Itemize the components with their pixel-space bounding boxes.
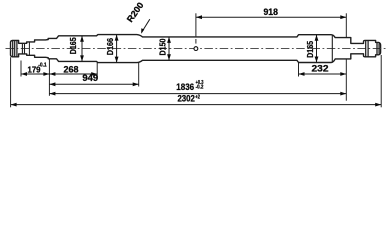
extension lines below shaft <box>20 61 22 77</box>
left end block inner verticals <box>12 40 14 56</box>
918 dimension <box>345 13 347 38</box>
D165 left <box>81 36 83 62</box>
svg-text:D150: D150 <box>159 38 168 55</box>
shaft outline <box>11 35 381 63</box>
svg-text:D166: D166 <box>106 38 115 55</box>
svg-text:R200: R200 <box>125 0 146 24</box>
svg-text:232: 232 <box>312 63 329 73</box>
svg-text:D165: D165 <box>69 37 78 54</box>
svg-text:1836: 1836 <box>176 82 194 92</box>
svg-text:-0.2: -0.2 <box>196 85 204 91</box>
D166 <box>116 35 118 63</box>
268 dimension <box>49 73 97 75</box>
svg-text:+2: +2 <box>195 94 200 100</box>
D150 <box>168 37 170 60</box>
179 dimension <box>21 73 49 75</box>
R200 <box>142 19 150 32</box>
svg-text:D165: D165 <box>306 40 315 57</box>
949 dimension <box>49 83 138 85</box>
right collar inner verticals <box>365 40 367 56</box>
svg-text:918: 918 <box>263 7 278 17</box>
D165 right <box>316 35 318 63</box>
svg-text:268: 268 <box>64 64 79 74</box>
right seat end step verticals <box>331 35 333 62</box>
1836 dimension <box>49 93 346 95</box>
232 dimension <box>299 73 347 75</box>
2302 dimension <box>11 104 382 106</box>
centerline <box>6 48 387 50</box>
right cap inner vertical <box>376 42 378 54</box>
svg-text:2302: 2302 <box>177 93 195 103</box>
left journal ring verticals <box>21 43 23 54</box>
svg-text:-0.1: -0.1 <box>38 63 47 69</box>
left dust seat inner vertical <box>28 42 30 55</box>
svg-text:949: 949 <box>82 73 98 83</box>
center mark <box>195 13 197 36</box>
